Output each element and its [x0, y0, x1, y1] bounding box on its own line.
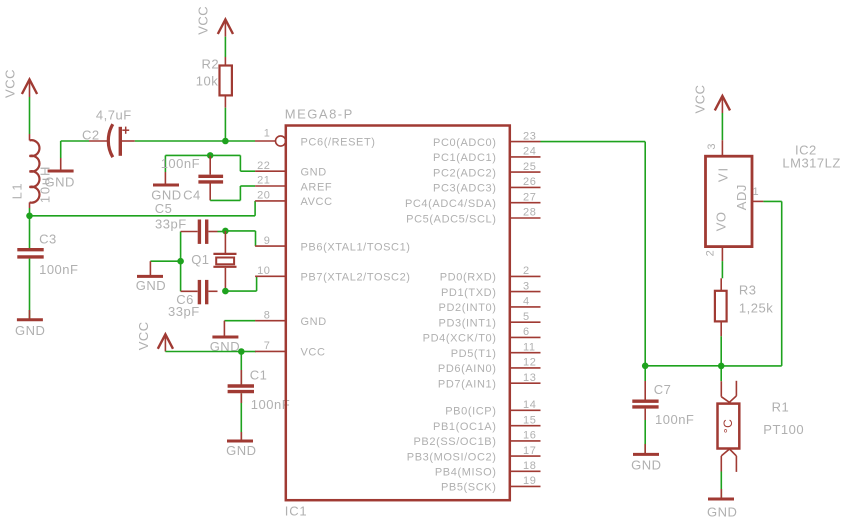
pin 21 (AREF)	[255, 175, 332, 194]
svg-text:VI: VI	[715, 166, 730, 182]
wire xtal top to pin9	[225, 230, 255, 232]
svg-text:4: 4	[523, 296, 530, 308]
svg-text:AVCC: AVCC	[301, 196, 333, 208]
svg-text:PD3(INT1): PD3(INT1)	[439, 318, 497, 330]
pin 2 (PD0(RXD))	[440, 265, 541, 284]
svg-text:VCC: VCC	[3, 69, 18, 98]
svg-text:C5: C5	[155, 201, 173, 216]
wire xtal bottom to pin10	[225, 290, 256, 292]
pin 20 (AVCC)	[255, 190, 333, 209]
node AVCC-net junction	[26, 213, 33, 220]
wire IC2 pin2 to R3	[721, 261, 723, 278]
svg-text:PD5(T1): PD5(T1)	[451, 348, 497, 360]
svg-text:20: 20	[257, 190, 270, 202]
pin 11 (PD5(T1))	[451, 341, 541, 360]
svg-text:18: 18	[523, 460, 536, 472]
pin 3 (PD1(TXD))	[441, 280, 541, 299]
wire node to R1	[720, 366, 722, 381]
pin 14 (PB0(ICP))	[445, 399, 540, 418]
ground (C4)	[151, 185, 181, 203]
ground (pin8)	[210, 337, 240, 354]
svg-text:GND: GND	[45, 175, 75, 190]
wire VCC to L1	[29, 97, 31, 134]
regulator IC2 (LM317LZ)	[705, 140, 841, 261]
wire C4 bottom to pin21	[210, 199, 240, 201]
pin 5 (PD3(INT1))	[439, 311, 541, 330]
svg-text:PC1(ADC1): PC1(ADC1)	[433, 152, 496, 164]
svg-text:C1: C1	[250, 367, 268, 382]
svg-text:MEGA8-P: MEGA8-P	[285, 106, 354, 121]
svg-text:2: 2	[523, 265, 530, 277]
node reset junction	[222, 138, 229, 145]
pin 17 (PB3(MOSI/OC2))	[407, 445, 541, 464]
pin 1 (PC6(/RESET))	[255, 128, 376, 149]
wire VCC to IC2 pin3	[721, 113, 723, 140]
wire C7 node down	[644, 366, 646, 381]
svg-text:8: 8	[264, 309, 271, 321]
ground (C7)	[631, 454, 661, 472]
svg-text:25: 25	[523, 161, 536, 173]
capacitor C1	[228, 367, 291, 412]
node xtal bottom junction	[222, 288, 229, 295]
svg-text:PD4(XCK/T0): PD4(XCK/T0)	[423, 333, 497, 345]
pin 4 (PD2(INT0))	[439, 296, 541, 315]
svg-text:VCC: VCC	[196, 6, 211, 35]
pin 16 (PB2(SS/OC1B))	[413, 430, 540, 449]
power VCC symbol (middle)	[136, 321, 173, 351]
svg-text:PB1(OC1A): PB1(OC1A)	[433, 421, 496, 433]
ground (C2)	[45, 171, 75, 190]
wire node to C1	[240, 352, 242, 385]
svg-text:VCC: VCC	[136, 321, 151, 350]
pin 18 (PB4(MISO))	[435, 460, 541, 479]
svg-text:PC4(ADC4/SDA): PC4(ADC4/SDA)	[405, 198, 497, 210]
wire VCC to pin7 node	[165, 351, 241, 353]
svg-text:3: 3	[706, 143, 718, 150]
svg-text:17: 17	[523, 445, 536, 457]
pin 15 (PB1(OC1A))	[433, 414, 540, 433]
svg-text:PC0(ADC0): PC0(ADC0)	[433, 137, 496, 149]
wire C3 to GND	[29, 259, 31, 319]
resistor R3	[715, 278, 773, 336]
svg-text:11: 11	[523, 341, 536, 353]
svg-text:PD6(AIN0): PD6(AIN0)	[438, 363, 497, 375]
svg-text:PD2(INT0): PD2(INT0)	[439, 302, 497, 314]
svg-text:33pF: 33pF	[155, 216, 187, 231]
wire node to pin7	[241, 351, 256, 353]
svg-text:PC3(ADC3): PC3(ADC3)	[433, 183, 496, 195]
svg-text:PD7(AIN1): PD7(AIN1)	[438, 379, 497, 391]
wire C4 node to pin22	[210, 154, 240, 156]
power VCC symbol (IC2)	[693, 85, 731, 114]
svg-text:Q1: Q1	[191, 252, 209, 267]
svg-text:22: 22	[257, 160, 270, 172]
node xtal top junction	[222, 228, 229, 235]
svg-text:26: 26	[523, 176, 536, 188]
svg-text:33pF: 33pF	[168, 304, 200, 319]
svg-text:PC2(ADC2): PC2(ADC2)	[433, 167, 496, 179]
svg-text:GND: GND	[631, 458, 661, 473]
pin 23 (PC0(ADC0))	[433, 130, 540, 149]
svg-text:24: 24	[523, 146, 536, 158]
ground (C1)	[226, 441, 256, 458]
wire ADJ net	[763, 200, 781, 202]
inductor L1	[10, 134, 53, 208]
svg-text:21: 21	[257, 175, 270, 187]
svg-text:PC6(/RESET): PC6(/RESET)	[301, 136, 376, 148]
crystal Q1	[191, 231, 236, 291]
svg-text:28: 28	[523, 207, 536, 219]
wire pin23 to C7 node	[541, 141, 646, 143]
svg-text:5: 5	[523, 311, 530, 323]
svg-text:C2: C2	[82, 128, 100, 143]
svg-text:C4: C4	[183, 188, 201, 203]
svg-text:L1: L1	[10, 182, 25, 199]
svg-text:C7: C7	[654, 382, 672, 397]
svg-text:R3: R3	[739, 282, 757, 297]
ground (crystal)	[136, 276, 166, 293]
svg-text:R2: R2	[202, 57, 220, 72]
svg-text:1,25k: 1,25k	[739, 301, 773, 316]
svg-text:GND: GND	[301, 167, 327, 179]
wire L1 to node	[29, 208, 31, 216]
svg-text:19: 19	[523, 475, 536, 487]
node R3/R1/ADJ junction	[718, 363, 725, 370]
resistor R2	[196, 57, 232, 108]
wire pin8 to GND	[224, 320, 255, 322]
svg-text:12: 12	[523, 357, 536, 369]
svg-text:GND: GND	[301, 316, 327, 328]
capacitor C6	[168, 280, 218, 319]
svg-text:1: 1	[752, 186, 759, 198]
svg-text:PB3(MOSI/OC2): PB3(MOSI/OC2)	[407, 451, 497, 463]
wire C4 node to GND	[165, 154, 210, 156]
svg-text:°C: °C	[721, 419, 735, 433]
op-amp IC1 body (MEGA8-P)	[285, 106, 510, 518]
svg-text:PB6(XTAL1/TOSC1): PB6(XTAL1/TOSC1)	[301, 241, 411, 253]
pin 19 (PB5(SCK))	[441, 475, 541, 494]
pin 6 (PD4(XCK/T0))	[423, 326, 541, 345]
capacitor C3	[17, 231, 78, 277]
pin 25 (PC2(ADC2))	[433, 161, 540, 180]
svg-text:VCC: VCC	[693, 85, 708, 114]
svg-text:27: 27	[523, 191, 536, 203]
wire C7 to GND	[644, 420, 646, 453]
pin 8 (GND)	[255, 309, 327, 328]
svg-text:PT100: PT100	[763, 422, 804, 437]
svg-text:16: 16	[523, 430, 536, 442]
wire C2 to reset node	[135, 140, 226, 142]
pin 13 (PD7(AIN1))	[438, 372, 541, 391]
svg-text:13: 13	[523, 372, 536, 384]
svg-text:C3: C3	[39, 231, 57, 246]
wire C5 to xtal top node	[218, 231, 226, 233]
svg-text:14: 14	[523, 399, 536, 411]
svg-text:100nF: 100nF	[655, 412, 694, 427]
wire node row	[645, 365, 721, 367]
pin 24 (PC1(ADC1))	[433, 146, 540, 165]
svg-text:1: 1	[264, 128, 271, 140]
svg-text:9: 9	[264, 235, 271, 247]
pin 10 (PB7(XTAL2/TOSC2))	[255, 265, 410, 284]
svg-text:IC1: IC1	[285, 504, 308, 519]
wire R2 to reset node	[224, 108, 226, 141]
svg-text:GND: GND	[707, 505, 737, 520]
node C7 junction	[642, 363, 649, 370]
capacitor C7	[632, 381, 694, 427]
svg-text:3: 3	[523, 280, 530, 292]
pin 28 (PC5(ADC5/SCL))	[406, 207, 540, 226]
svg-text:ADJ: ADJ	[734, 184, 749, 210]
sensor R1 (PT100)	[718, 381, 805, 472]
svg-text:100nF: 100nF	[251, 397, 290, 412]
svg-text:R1: R1	[772, 400, 790, 415]
svg-text:GND: GND	[136, 278, 166, 293]
svg-text:4,7uF: 4,7uF	[96, 108, 132, 123]
svg-text:PB7(XTAL2/TOSC2): PB7(XTAL2/TOSC2)	[301, 272, 411, 284]
svg-text:VO: VO	[714, 212, 729, 232]
ground (R1)	[707, 499, 737, 520]
svg-text:GND: GND	[226, 443, 256, 458]
svg-text:LM317LZ: LM317LZ	[782, 155, 840, 170]
wire reset node to pin1	[225, 140, 255, 142]
svg-text:10: 10	[257, 265, 270, 277]
pin 9 (PB6(XTAL1/TOSC1))	[255, 235, 410, 254]
svg-text:PB4(MISO): PB4(MISO)	[435, 467, 497, 479]
wire C1 to GND	[240, 393, 242, 440]
svg-text:100nF: 100nF	[39, 262, 78, 277]
node pin7 junction	[238, 348, 245, 355]
pin 22 (GND)	[255, 160, 327, 179]
wire R3 to node	[720, 336, 722, 366]
power VCC symbol (top)	[196, 6, 234, 37]
power VCC symbol (left)	[3, 69, 37, 98]
svg-text:100nF: 100nF	[161, 156, 200, 171]
capacitor C5	[155, 201, 218, 244]
wire node to C3	[29, 216, 31, 248]
capacitor C4	[161, 155, 223, 202]
svg-text:PB2(SS/OC1B): PB2(SS/OC1B)	[413, 436, 496, 448]
svg-text:GND: GND	[15, 323, 45, 338]
pin 27 (PC4(ADC4/SDA))	[405, 191, 541, 210]
svg-text:2: 2	[705, 250, 717, 257]
svg-text:10k: 10k	[196, 74, 218, 89]
svg-text:PB0(ICP): PB0(ICP)	[445, 406, 496, 418]
svg-text:7: 7	[264, 340, 271, 352]
svg-text:23: 23	[523, 130, 536, 142]
node xtal-gnd junction	[177, 258, 184, 265]
svg-text:PD0(RXD): PD0(RXD)	[440, 272, 497, 284]
pin 12 (PD6(AIN0))	[438, 357, 541, 376]
wire xtal node to GND	[150, 260, 180, 262]
pin 7 (VCC)	[255, 340, 325, 359]
pin 26 (PC3(ADC3))	[433, 176, 540, 195]
wire R1 to GND	[720, 472, 722, 498]
wire xtal left rail	[180, 232, 182, 292]
ground (C3)	[15, 320, 45, 338]
wire AVCC long net	[30, 215, 256, 217]
capacitor C2 (polarized)	[82, 108, 135, 158]
svg-text:PD1(TXD): PD1(TXD)	[441, 287, 497, 299]
svg-text:VCC: VCC	[301, 347, 326, 359]
svg-text:15: 15	[523, 414, 536, 426]
svg-text:PB5(SCK): PB5(SCK)	[441, 482, 497, 494]
node C4 top junction	[207, 152, 214, 159]
wire VCC to R2	[224, 37, 226, 57]
svg-text:AREF: AREF	[301, 181, 333, 193]
svg-text:PC5(ADC5/SCL): PC5(ADC5/SCL)	[406, 213, 496, 225]
wire C2 left to GND elbow	[61, 140, 89, 142]
svg-text:6: 6	[523, 326, 530, 338]
